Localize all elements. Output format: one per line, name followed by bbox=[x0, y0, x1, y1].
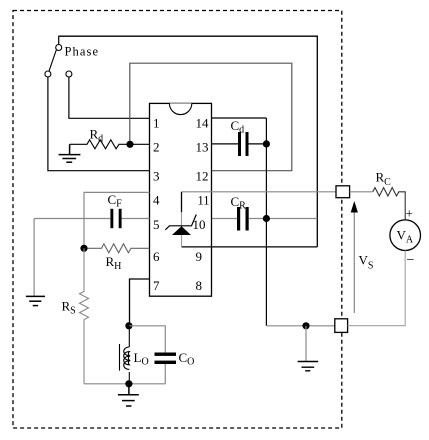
wire: bus to bottom terminal bbox=[266, 325, 334, 327]
wire: zener anode row inside IC bbox=[182, 246, 212, 248]
node: pin2 / R_d / pin12 junction bbox=[126, 141, 133, 148]
resistor R_C bbox=[373, 188, 405, 220]
wire: pin 10 to C_R bbox=[212, 218, 238, 220]
wire: pin 13 to C_d bbox=[212, 143, 239, 145]
resistor R_H bbox=[84, 244, 150, 253]
wire: C_F to ground bbox=[33, 219, 35, 297]
V_S measure arrow bbox=[351, 201, 358, 313]
svg-text:3: 3 bbox=[153, 168, 160, 183]
svg-text:8: 8 bbox=[196, 278, 203, 293]
switch contact right circle bbox=[66, 71, 72, 77]
ground (tank) bbox=[118, 384, 139, 406]
wire: switch left contact to pin 3 bbox=[48, 77, 150, 171]
node: R_H / R_S / pin4 junction bbox=[80, 245, 87, 252]
capacitor C_R bbox=[237, 207, 317, 231]
switch lever bbox=[49, 50, 56, 71]
svg-text:Phase: Phase bbox=[65, 44, 100, 58]
svg-text:9: 9 bbox=[196, 249, 203, 264]
svg-text:7: 7 bbox=[153, 278, 160, 293]
voltmeter V_A bbox=[390, 220, 421, 251]
wire: pin 5 to C_F bbox=[122, 218, 150, 220]
capacitor C_F bbox=[34, 209, 122, 228]
svg-text:6: 6 bbox=[153, 249, 160, 264]
capacitor C_O bbox=[155, 353, 177, 384]
ground (output) bbox=[298, 326, 319, 371]
zener diode (internal reference) bbox=[165, 215, 196, 236]
wire: zener cathode lead bbox=[181, 192, 183, 213]
svg-text:4: 4 bbox=[153, 192, 160, 207]
wire: pin 14 over to vertical bus bbox=[212, 117, 267, 119]
enclosure dashed border bbox=[13, 11, 342, 429]
wire: pin 4 to left vertical bbox=[84, 192, 150, 248]
wire: tank bottom rail bbox=[84, 383, 165, 385]
svg-text:13: 13 bbox=[196, 139, 209, 154]
capacitor C_d bbox=[238, 132, 266, 156]
svg-text:+: + bbox=[406, 206, 413, 221]
wire: top rail from switch to right vertical, down to anode wire bbox=[58, 36, 317, 247]
svg-text:12: 12 bbox=[196, 168, 209, 183]
svg-text:14: 14 bbox=[196, 115, 210, 130]
svg-text:−: − bbox=[407, 253, 415, 268]
node: tank bottom junction bbox=[125, 380, 132, 387]
wire: switch right contact to pin 1 bbox=[69, 77, 150, 118]
node: tank top junction bbox=[125, 322, 132, 329]
resistor R_d bbox=[70, 140, 150, 149]
svg-text:5: 5 bbox=[153, 217, 160, 232]
IC body U1 bbox=[150, 103, 212, 296]
wire: top terminal to R_C bbox=[350, 191, 373, 193]
wire: zener anode row (pin 9 level) bbox=[182, 246, 318, 248]
node: C_R / bus junction bbox=[263, 215, 270, 222]
ground (R_d) bbox=[59, 144, 81, 162]
wire: vertical bus x=266 from pin14 wire to bottom rail bbox=[265, 118, 267, 326]
svg-text:10: 10 bbox=[193, 217, 206, 232]
ground (C_F) bbox=[26, 296, 45, 305]
svg-text:11: 11 bbox=[198, 193, 210, 207]
wire: zener body vertical lead bbox=[181, 212, 183, 247]
node: ground tap junction bbox=[302, 322, 309, 329]
node: C_d / bus junction bbox=[263, 140, 270, 147]
terminal box top bbox=[336, 186, 350, 198]
terminal box bottom bbox=[335, 319, 348, 333]
inductor L_O bbox=[120, 326, 130, 384]
switch contact top circle bbox=[56, 45, 62, 51]
switch contact left circle bbox=[45, 71, 51, 77]
resistor R_S bbox=[80, 248, 89, 383]
wire: tank top rail to C_O bbox=[129, 326, 165, 353]
svg-text:1: 1 bbox=[153, 115, 160, 130]
wire: zener cathode row to top terminal bbox=[182, 191, 337, 193]
wire: switch common up to top rail bbox=[58, 36, 60, 45]
wire: pin 7 down to tank bbox=[130, 279, 150, 326]
IC notch bbox=[169, 103, 191, 114]
wire: V_A to bottom terminal bbox=[348, 251, 406, 326]
svg-text:2: 2 bbox=[153, 139, 160, 154]
wire: pin 12 loop to pin-2 junction bbox=[130, 63, 292, 171]
